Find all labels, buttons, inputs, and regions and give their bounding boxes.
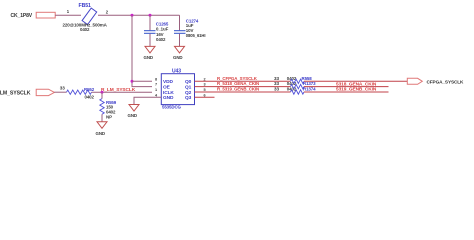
svg-text:R_LM_SYSCLK: R_LM_SYSCLK [101,87,136,93]
junction at VDD pin row [131,80,134,83]
svg-text:R1373: R1373 [303,81,316,86]
svg-text:5319_GENB_CKIN: 5319_GENB_CKIN [336,87,377,93]
svg-text:FB51: FB51 [79,3,92,9]
wire R1373 end [304,86,389,88]
svg-text:7: 7 [155,83,157,87]
svg-text:0402: 0402 [85,95,95,100]
wire to VDD pin [132,80,152,82]
svg-text:1: 1 [155,88,157,92]
svg-text:R1374: R1374 [303,87,316,92]
svg-text:Q0: Q0 [185,79,192,85]
svg-text:R_5319_GENB_CKIN: R_5319_GENB_CKIN [217,87,259,92]
junction C1265 [149,14,152,17]
svg-text:33: 33 [274,76,279,81]
svg-text:33: 33 [274,87,279,92]
svg-text:ICLK: ICLK [163,90,174,96]
svg-text:Q3: Q3 [185,95,192,101]
ground for C1274 [175,46,185,53]
svg-text:Q1: Q1 [185,84,192,90]
resistor R1374 [291,90,305,94]
svg-text:8: 8 [155,77,157,81]
capacitor C1265 [149,15,151,30]
resistor R559 [100,99,104,115]
wire VDD drop [132,15,152,86]
ground for U43 [129,105,139,112]
wire R559 to ground [101,114,103,121]
svg-text:0402: 0402 [156,37,166,42]
svg-text:C1265: C1265 [156,21,169,26]
svg-text:R558: R558 [302,76,313,81]
resistor R1373 [291,84,305,88]
svg-text:R_5318_GENA_CKIN: R_5318_GENA_CKIN [217,81,259,86]
junction VDD branch [131,14,134,17]
port CFPGA_SYSCLK [407,78,422,84]
svg-text:R_CFPGA_SYSCLK: R_CFPGA_SYSCLK [217,76,258,81]
wire R552 to ICLK pin [92,91,153,93]
svg-text:NP: NP [106,114,112,119]
port CK_1P8V [36,12,55,18]
wire Q2 row [195,91,291,93]
svg-text:GND: GND [96,131,105,136]
svg-text:GND: GND [128,113,137,118]
svg-text:OE: OE [163,84,171,90]
svg-text:ILM_SYSCLK: ILM_SYSCLK [0,90,31,96]
svg-text:Q2: Q2 [185,90,192,96]
wire R1374 end [304,91,389,93]
junction R559 [101,91,104,94]
svg-text:CFPGA_SYSCLK: CFPGA_SYSCLK [427,80,465,85]
wire port to R552 [54,91,66,93]
wire junction to R559 [101,92,103,98]
svg-text:CK_1P8V: CK_1P8V [11,13,33,19]
svg-text:33: 33 [274,81,279,86]
wire Q3 stub [195,96,215,98]
wire Q0 row [195,80,291,82]
svg-text:GND: GND [144,55,153,60]
svg-text:0402: 0402 [80,27,90,32]
wire Q1 row [195,86,291,88]
wire GND pin of U43 [134,97,161,104]
svg-text:33: 33 [60,86,65,91]
svg-text:R552: R552 [84,87,95,92]
ground for C1265 [145,46,155,53]
resistor R558 [291,79,305,83]
svg-text:GND: GND [163,95,174,101]
wire FB51 to rail end [98,14,180,16]
svg-text:VDD: VDD [163,79,173,85]
capacitor C1274 [179,15,181,30]
svg-text:0805_61HI: 0805_61HI [186,33,206,38]
ground for R559 [97,122,107,129]
svg-text:5535DCG: 5535DCG [162,105,182,110]
wire R558 to port [304,80,407,82]
port LM_SYSCLK [36,89,54,95]
svg-text:GND: GND [173,55,182,60]
resistor R552 [67,90,92,94]
wire port to FB51 [55,14,81,16]
